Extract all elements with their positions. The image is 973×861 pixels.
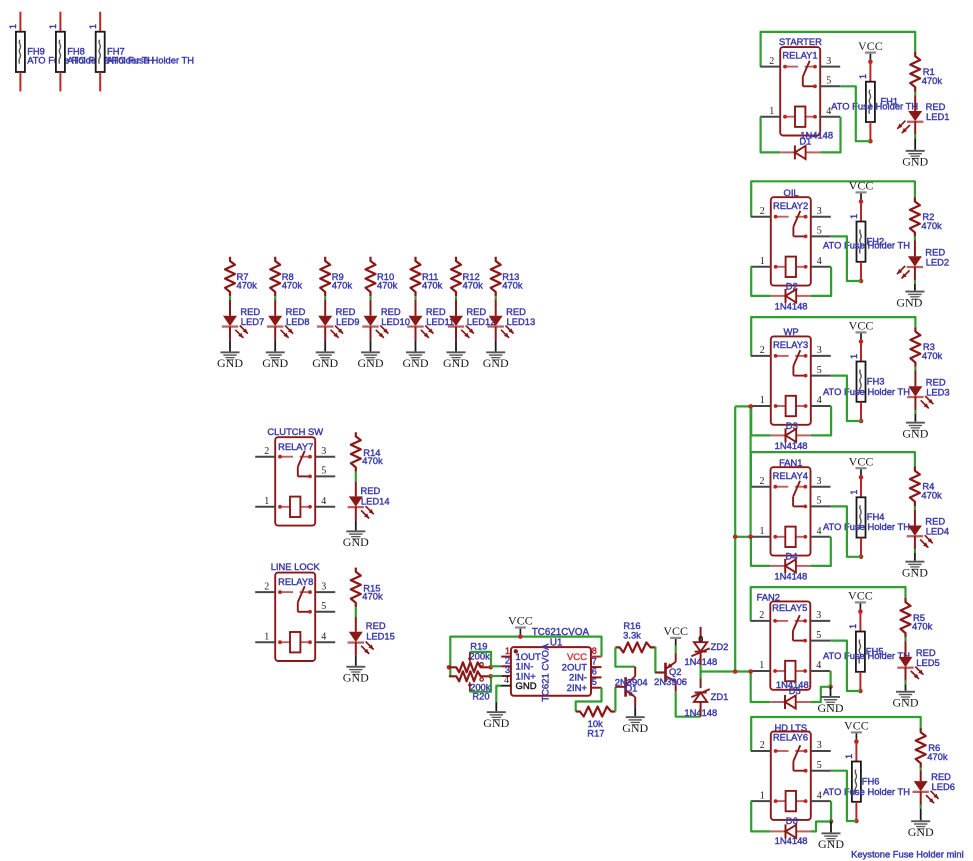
wire IC pin3 net xyxy=(491,675,502,677)
IC pin1 marker xyxy=(514,649,518,653)
ground GND under LED2 xyxy=(896,291,924,310)
svg-text:470k: 470k xyxy=(921,220,942,231)
resistor R4 xyxy=(910,467,920,507)
svg-text:RELAY3: RELAY3 xyxy=(773,339,808,350)
label RELAY6 xyxy=(773,732,808,743)
pin 5 stub RELAY7 xyxy=(315,466,335,477)
svg-text:3: 3 xyxy=(817,206,822,217)
pin 5 stub RELAY2 xyxy=(811,226,831,237)
wire LED9 to ground xyxy=(324,340,326,351)
IC pin 1 stub xyxy=(501,646,511,657)
label LED9 xyxy=(336,316,359,327)
label RED LED15 xyxy=(366,620,386,631)
svg-text:RELAY1: RELAY1 xyxy=(782,50,817,61)
relay coil RELAY3 xyxy=(774,396,808,416)
junction VCC STARTER xyxy=(868,59,873,64)
svg-text:4: 4 xyxy=(321,496,326,507)
svg-text:VCC: VCC xyxy=(844,719,869,733)
label 1N4148 D6 xyxy=(775,835,808,846)
label FH1 xyxy=(880,96,898,107)
LED LED8 xyxy=(267,316,293,338)
wire LED9 anode xyxy=(324,300,326,316)
pin number 1 FH2 xyxy=(849,214,859,219)
wire pin top FH8 xyxy=(59,12,61,32)
svg-text:RELAY7: RELAY7 xyxy=(278,441,313,452)
pin 4 stub RELAY8 xyxy=(315,631,335,642)
LED LED14 xyxy=(348,496,374,518)
label FAN1 xyxy=(779,457,802,468)
label FH7 xyxy=(107,46,125,57)
svg-text:VCC: VCC xyxy=(849,454,874,468)
fuse FH5 xyxy=(856,632,865,672)
svg-text:ATO Fuse Holder TH: ATO Fuse Holder TH xyxy=(823,386,910,397)
ground GND under LED9 xyxy=(312,351,338,370)
svg-text:LED14: LED14 xyxy=(361,495,390,506)
IC label VCC pin xyxy=(567,652,587,663)
wire LED8 cathode xyxy=(274,327,276,341)
svg-text:LED5: LED5 xyxy=(916,657,939,668)
wire LED15 to ground xyxy=(355,656,357,666)
LED LED11 xyxy=(407,316,433,338)
label R7 xyxy=(237,271,249,282)
wire diode loop left D5 xyxy=(751,671,771,702)
wire LED6 cathode net xyxy=(920,805,922,809)
svg-text:470k: 470k xyxy=(921,489,942,500)
wire diode loop right D1 xyxy=(820,117,840,153)
label RED LED13 xyxy=(506,306,526,317)
pin 3 stub RELAY3 xyxy=(811,345,831,356)
svg-text:GND: GND xyxy=(516,681,537,692)
svg-text:1N4148: 1N4148 xyxy=(775,835,808,846)
svg-text:470k: 470k xyxy=(927,751,948,762)
wire fuse top pin FH3 xyxy=(860,342,862,362)
IC label GND pin xyxy=(516,681,537,692)
value R5 470k xyxy=(912,621,933,632)
junction fuse bottom FH6 xyxy=(854,819,859,824)
pin 4 stub RELAY6 xyxy=(811,790,831,801)
svg-text:470k: 470k xyxy=(922,350,943,361)
wire LED12 to ground xyxy=(455,340,457,351)
wire LED15 anode xyxy=(355,617,357,632)
svg-text:RELAY6: RELAY6 xyxy=(773,732,808,743)
wire LED2 to ground xyxy=(914,284,916,291)
wire fuse top pin FH4 xyxy=(860,477,862,497)
label RED LED5 xyxy=(916,647,936,658)
pin 4 stub RELAY2 xyxy=(811,256,831,267)
wire diode loop left D6 xyxy=(751,801,771,831)
relay box RELAY1 xyxy=(780,47,820,135)
value R16 3.3k xyxy=(623,629,641,640)
value R7 470k xyxy=(237,280,258,291)
junction FAN1 pin1 xyxy=(748,535,753,540)
label RELAY2 xyxy=(773,200,808,211)
pin 4 stub RELAY3 xyxy=(811,395,831,406)
pin 4 stub RELAY7 xyxy=(315,496,335,507)
ground GND under LED11 xyxy=(403,351,429,370)
svg-text:Q1: Q1 xyxy=(625,683,638,694)
wire Q2 collector to ZD1 xyxy=(676,692,701,717)
wire R20 wiper net xyxy=(470,676,491,691)
wire LED11 to ground xyxy=(415,340,417,351)
svg-text:ZD1: ZD1 xyxy=(711,691,729,702)
svg-text:1: 1 xyxy=(88,24,98,29)
svg-text:TC621 CVOA: TC621 CVOA xyxy=(541,643,552,702)
svg-text:5: 5 xyxy=(817,365,822,376)
label FH8 xyxy=(67,46,85,57)
svg-text:4: 4 xyxy=(504,675,509,686)
junction VCC HD LTS xyxy=(854,739,859,744)
wire R1 to LED1 xyxy=(914,92,916,96)
LED LED3 xyxy=(907,386,933,408)
IC label 1IN+ xyxy=(516,671,537,682)
junction fuse bottom FH4 xyxy=(859,555,864,560)
wire net top FAN1 xyxy=(751,452,915,487)
relay coil RELAY6 xyxy=(774,791,808,811)
svg-text:3: 3 xyxy=(817,740,822,751)
svg-text:LED7: LED7 xyxy=(241,316,264,327)
power VCC FAN2 xyxy=(848,589,873,610)
svg-text:470k: 470k xyxy=(922,75,943,86)
svg-text:4: 4 xyxy=(817,526,822,537)
fuse FH3 xyxy=(857,362,866,402)
label 1N4148 D4 xyxy=(774,571,807,582)
svg-text:5: 5 xyxy=(826,76,831,87)
wire diode loop left D3 xyxy=(751,406,771,435)
label D6 xyxy=(786,815,798,826)
label 1N4148 D1 xyxy=(800,130,833,141)
svg-text:GND: GND xyxy=(262,356,288,370)
IC pin 3 stub xyxy=(501,665,511,676)
wire bus A WP-FAN2 xyxy=(734,406,736,671)
label LED14 xyxy=(361,495,390,506)
label RED LED4 xyxy=(925,516,945,527)
wire R9 to LED9 xyxy=(324,296,326,300)
pin 1 stub RELAY5 xyxy=(750,660,770,671)
svg-text:RED: RED xyxy=(366,620,386,631)
wire LED11 cathode xyxy=(415,327,417,341)
resistor R5 xyxy=(901,598,911,638)
svg-text:VCC: VCC xyxy=(567,652,587,663)
svg-text:LED3: LED3 xyxy=(926,386,949,397)
label Q2 xyxy=(669,666,682,677)
relay switch contacts RELAY5 xyxy=(773,615,807,642)
wire LED4 cathode net xyxy=(914,549,916,553)
svg-text:1: 1 xyxy=(760,526,765,537)
svg-text:GND: GND xyxy=(818,837,844,851)
wire LED4 anode xyxy=(914,510,916,526)
wire LED6 to ground xyxy=(920,809,922,821)
transistor Q1 xyxy=(615,667,635,707)
wire LED1 cathode net xyxy=(914,135,916,139)
label D5 xyxy=(789,685,801,696)
label RELAY7 xyxy=(278,441,313,452)
svg-text:470k: 470k xyxy=(377,280,398,291)
wire net top WP xyxy=(751,317,915,356)
svg-text:GND: GND xyxy=(902,566,928,580)
pin 1 stub RELAY8 xyxy=(255,631,275,642)
wire LED1 anode xyxy=(914,95,916,111)
svg-text:ATO Fuse Holder TH: ATO Fuse Holder TH xyxy=(823,521,910,532)
pin 1 stub RELAY7 xyxy=(255,496,275,507)
svg-text:2: 2 xyxy=(760,345,765,356)
junction VCC FAN1 xyxy=(859,475,864,480)
relay coil RELAY8 xyxy=(278,632,312,652)
svg-text:D5: D5 xyxy=(789,685,801,696)
label CLUTCH SW xyxy=(267,426,323,437)
svg-text:470k: 470k xyxy=(502,280,523,291)
svg-text:R20: R20 xyxy=(472,691,489,702)
pin 1 stub RELAY4 xyxy=(751,526,771,537)
label R2 xyxy=(922,211,934,222)
svg-text:7: 7 xyxy=(592,656,597,666)
svg-text:3: 3 xyxy=(321,446,326,457)
svg-text:4: 4 xyxy=(817,256,822,267)
svg-text:U1: U1 xyxy=(550,638,563,649)
value FH4 ATO Fuse Holder TH xyxy=(823,521,910,532)
wire R8 to LED8 xyxy=(274,296,276,300)
pin 4 stub RELAY1 xyxy=(820,106,840,117)
svg-text:ATO Fuse Holder TH: ATO Fuse Holder TH xyxy=(107,55,194,66)
diode D1 xyxy=(780,145,820,159)
wire fuse bottom pin FH5 xyxy=(859,672,861,691)
relay coil RELAY7 xyxy=(278,497,312,517)
diode D3 xyxy=(771,428,811,442)
resistor R3 xyxy=(910,327,920,367)
label FH3 xyxy=(867,375,885,386)
value R15 470k xyxy=(362,591,383,602)
label R5 xyxy=(913,612,925,623)
label FH4 xyxy=(867,511,885,522)
label ZD1 xyxy=(711,691,729,702)
power VCC WP xyxy=(849,319,874,340)
wire IC pin2 net xyxy=(491,665,502,667)
resistor R6 xyxy=(916,728,926,768)
svg-text:470k: 470k xyxy=(282,280,303,291)
svg-text:RELAY8: RELAY8 xyxy=(278,576,313,587)
label R6 xyxy=(928,742,940,753)
svg-text:LED11: LED11 xyxy=(426,316,454,327)
pin number 1 FH1 xyxy=(858,74,868,79)
svg-text:GND: GND xyxy=(343,671,369,685)
svg-text:3: 3 xyxy=(817,476,822,487)
label RED LED6 xyxy=(931,771,951,782)
label LED2 xyxy=(926,256,949,267)
wire R12 to LED12 xyxy=(455,296,457,300)
resistor R13 xyxy=(491,257,501,297)
wire R19 wiper net xyxy=(470,652,491,667)
diode ZD1 xyxy=(691,689,709,702)
label RED LED11 xyxy=(426,306,446,317)
svg-text:LED6: LED6 xyxy=(932,781,955,792)
pin number 1 FH8 xyxy=(48,24,58,29)
wire pin5 to fuse FAN1 xyxy=(831,506,862,556)
svg-text:LED15: LED15 xyxy=(366,631,395,642)
junction fuse bottom FH5 xyxy=(858,689,863,694)
svg-text:LED4: LED4 xyxy=(926,526,949,537)
wire LED8 to ground xyxy=(274,340,276,351)
IC label 2IN- xyxy=(569,673,587,684)
wire R7 to LED7 xyxy=(229,296,231,300)
junction R19 out xyxy=(488,665,493,670)
wire pin5 to fuse HD LTS xyxy=(831,771,857,821)
svg-text:1: 1 xyxy=(8,24,18,29)
label LED3 xyxy=(926,386,949,397)
value FH1 ATO Fuse Holder TH xyxy=(831,101,918,112)
ground GND under LED13 xyxy=(483,351,509,370)
wire bus B WP-FAN1 xyxy=(749,406,751,536)
pin number 1 FH4 xyxy=(849,490,859,495)
svg-text:1: 1 xyxy=(849,214,859,219)
ZD2 pin marker 0 xyxy=(698,634,703,644)
transistor Q2 xyxy=(655,653,675,692)
relay switch contacts RELAY1 xyxy=(783,61,817,88)
label R9 xyxy=(332,271,344,282)
label LED13 xyxy=(507,316,536,327)
resistor R8 xyxy=(270,257,280,297)
label 1N4148 D2 xyxy=(775,301,808,312)
junction fuse bottom FH1 xyxy=(868,139,873,144)
svg-text:470k: 470k xyxy=(237,280,258,291)
label D4 xyxy=(786,551,798,562)
wire LED5 cathode net xyxy=(904,681,906,685)
wire LED6 cathode xyxy=(920,791,922,805)
label HD LTS xyxy=(774,722,807,733)
wire LED5 to ground xyxy=(905,684,907,690)
label RELAY5 xyxy=(772,602,807,613)
wire LED3 cathode net xyxy=(914,410,916,414)
label Keystone Fuse Holder mini xyxy=(851,849,964,860)
wire R14 to LED14 xyxy=(355,472,357,482)
value label FH9 xyxy=(27,55,114,66)
ground GND under LED15 xyxy=(343,666,369,685)
svg-text:GND: GND xyxy=(893,696,919,710)
wire diode loop right D4 xyxy=(811,537,831,566)
wire LED14 to ground xyxy=(355,520,357,530)
wire R16 right to Q2 base xyxy=(655,647,666,672)
LED LED2 xyxy=(897,256,923,278)
svg-text:CLUTCH SW: CLUTCH SW xyxy=(267,426,323,437)
svg-text:8: 8 xyxy=(592,646,597,656)
pin number 1 FH6 xyxy=(844,754,854,759)
value R13 470k xyxy=(502,280,523,291)
value R3 470k xyxy=(922,350,943,361)
ground GND under LED10 xyxy=(358,351,384,370)
wire LED4 to ground xyxy=(914,553,916,561)
pin 2 stub RELAY8 xyxy=(255,581,275,592)
label R1 xyxy=(923,66,935,77)
label R4 xyxy=(922,480,934,491)
resistor R14 xyxy=(351,432,361,472)
label OIL xyxy=(784,187,799,198)
label R3 xyxy=(923,341,935,352)
wire R15 to LED15 xyxy=(355,607,357,617)
svg-text:ATO Fuse Holder TH: ATO Fuse Holder TH xyxy=(831,101,918,112)
relay box RELAY2 xyxy=(771,197,811,285)
wire diode loop right D5 xyxy=(810,687,830,702)
junction FAN2 pin1 xyxy=(748,669,753,674)
svg-text:VCC: VCC xyxy=(848,589,873,603)
svg-text:470k: 470k xyxy=(332,280,353,291)
wire ground stem RELAY6 xyxy=(830,822,832,833)
wire pin top FH7 xyxy=(99,12,101,32)
pin 2 stub RELAY6 xyxy=(751,740,771,751)
power VCC OIL xyxy=(849,179,874,200)
wire LED12 cathode xyxy=(455,327,457,341)
LED LED1 xyxy=(897,111,923,133)
value R14 470k xyxy=(362,455,383,466)
pin 3 stub RELAY2 xyxy=(811,206,831,217)
pin 1 stub RELAY2 xyxy=(751,256,771,267)
label FH9 xyxy=(27,46,45,57)
power VCC STARTER xyxy=(858,39,883,60)
label R16 xyxy=(623,620,640,631)
svg-text:1: 1 xyxy=(848,624,858,629)
relay coil RELAY2 xyxy=(774,257,808,277)
wire pin5 to fuse STARTER xyxy=(840,86,870,141)
value ZD1 1N4148 xyxy=(684,707,717,718)
svg-text:3.3k: 3.3k xyxy=(623,629,641,640)
wire pin5 to fuse OIL xyxy=(831,236,861,281)
diode D5 xyxy=(770,695,810,709)
IC pin 6 stub xyxy=(591,667,602,678)
wire ZD2 to junction xyxy=(700,652,702,672)
wire fuse top pin FH6 xyxy=(855,742,857,762)
wire LED9 cathode xyxy=(324,327,326,341)
resistor R11 xyxy=(411,257,421,297)
svg-text:ATO Fuse Holder TH: ATO Fuse Holder TH xyxy=(823,240,910,251)
pin 5 stub RELAY1 xyxy=(820,76,840,87)
svg-text:GND: GND xyxy=(403,356,429,370)
svg-text:3: 3 xyxy=(826,56,831,67)
label RED LED1 xyxy=(926,101,946,112)
junction VCC OIL xyxy=(859,199,864,204)
svg-text:VCC: VCC xyxy=(508,614,533,628)
label RELAY8 xyxy=(278,576,313,587)
ground GND under LED12 xyxy=(443,351,469,370)
ground GND at RELAY6 xyxy=(818,832,844,851)
label R14 xyxy=(363,447,380,458)
relay switch contacts RELAY4 xyxy=(773,481,807,508)
ground GND under LED6 xyxy=(908,820,934,839)
wire LED14 anode xyxy=(355,482,357,497)
resistor R9 xyxy=(320,257,330,297)
wire diode loop left D4 xyxy=(751,537,771,566)
resistor R17 xyxy=(576,707,616,717)
svg-text:5: 5 xyxy=(817,760,822,771)
ground GND under LED1 xyxy=(902,150,928,169)
pin 3 stub RELAY1 xyxy=(820,56,840,67)
LED LED15 xyxy=(348,632,374,654)
svg-text:1N4148: 1N4148 xyxy=(775,440,808,451)
junction bus A FAN1 xyxy=(733,535,738,540)
wire fuse bottom pin FH3 xyxy=(860,402,862,421)
wire pin5 to R17 xyxy=(576,688,602,712)
svg-text:2: 2 xyxy=(760,476,765,487)
pin 5 stub RELAY4 xyxy=(811,496,831,507)
label FH2 xyxy=(867,235,885,246)
diode D2 xyxy=(771,289,811,303)
label R15 xyxy=(363,583,380,594)
svg-text:VCC: VCC xyxy=(849,319,874,333)
value FH6 ATO Fuse Holder TH xyxy=(823,786,910,797)
wire LED14 cathode xyxy=(355,507,357,521)
junction R19 left xyxy=(447,665,452,670)
R20 wiper xyxy=(468,678,484,692)
wire fuse bottom pin FH6 xyxy=(855,802,857,821)
wire R13 to LED13 xyxy=(495,296,497,300)
label RED LED8 xyxy=(286,306,306,317)
svg-text:1: 1 xyxy=(849,490,859,495)
